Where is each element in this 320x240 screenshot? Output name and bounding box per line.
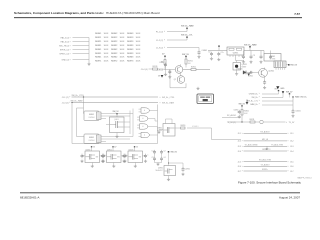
svg-text:»: » [259, 97, 260, 99]
wire bus vertical [88, 38, 90, 63]
capacitor C0952 [217, 52, 224, 57]
svg-text:»: » [288, 141, 289, 143]
capacitor C0941 [248, 71, 253, 78]
svg-text:C0911: C0911 [159, 62, 164, 64]
svg-text:J3-2: J3-2 [290, 141, 294, 143]
wire Q0901 to rail [181, 64, 187, 67]
transistor Q0951 [233, 61, 247, 71]
wire Q0901 collector out [183, 67, 210, 71]
svg-text:100K: 100K [136, 37, 141, 39]
logic gate U0821D [139, 132, 158, 137]
svg-text:R0823: R0823 [127, 41, 134, 43]
resistor R0911 [185, 57, 193, 66]
svg-text:»: » [242, 146, 243, 148]
svg-text:R0832: R0832 [111, 45, 118, 47]
node bus junction 1 [83, 96, 84, 97]
capacitor C0951 [208, 52, 213, 57]
svg-text:R0821: R0821 [95, 41, 102, 43]
svg-text:RX_AUDIO: RX_AUDIO [227, 114, 237, 117]
wire net PA1-5 (2) [73, 37, 90, 39]
node B+ tap dot [218, 45, 220, 50]
svg-text:»: » [242, 141, 243, 143]
svg-text:SPKR-: SPKR- [262, 149, 268, 151]
wire net SPKR- (2) [73, 49, 90, 51]
footer date [279, 196, 300, 200]
resistor R0801 vert [241, 106, 249, 122]
svg-text:»: » [288, 151, 289, 153]
node 5V flag (U0811) [113, 111, 120, 114]
svg-text:SW_B+_CTRL: SW_B+_CTRL [72, 95, 84, 97]
svg-text:R0812: R0812 [111, 37, 118, 39]
svg-text:RX_AUDIO: RX_AUDIO [260, 131, 270, 134]
wire feedback loop [166, 119, 173, 124]
resistor R0851 [175, 125, 186, 129]
svg-text:100K: 100K [136, 61, 141, 63]
svg-text:F1-1 (2): F1-1 (2) [156, 31, 163, 33]
svg-text:J2-4: J2-4 [238, 151, 242, 153]
svg-text:»: » [288, 133, 289, 135]
svg-text:C0851: C0851 [234, 109, 239, 111]
svg-text:SW_B+_CTRL: SW_B+_CTRL [162, 97, 174, 99]
svg-text:J2-6: J2-6 [238, 166, 242, 168]
svg-text:R0861: R0861 [95, 57, 102, 59]
note box (part number callout) [197, 94, 214, 104]
net label SW_B+_RAW mid [160, 101, 175, 104]
node 5V flag (Q0901) [162, 54, 166, 57]
svg-text:R0841: R0841 [95, 49, 102, 51]
wire SPKR+ line [238, 169, 294, 173]
wire K line 3 [262, 100, 293, 102]
svg-text:J3-3: J3-3 [290, 146, 294, 148]
resistor R0811 label [250, 119, 256, 123]
svg-text:SW_B+_CTL: SW_B+_CTL [181, 34, 194, 36]
IC U0931 box [156, 166, 176, 176]
wire net GND (2) [73, 59, 90, 61]
svg-text:0 100K 0: 0 100K 0 [192, 126, 198, 128]
svg-text:U0831: U0831 [157, 127, 162, 129]
svg-text:HUE4017A (700-800 MHz) Main Bo: HUE4017A (700-800 MHz) Main Board [106, 11, 160, 15]
svg-text:»: » [288, 161, 289, 163]
transistor Q0801 small [260, 120, 264, 124]
svg-text:R0871: R0871 [95, 61, 102, 63]
wire TX5V out [264, 122, 295, 124]
resistor table R0801-R0883 values [95, 33, 141, 63]
svg-text:R0801: R0801 [244, 110, 249, 112]
svg-text:J2-7: J2-7 [238, 171, 242, 173]
ground (C0931) [181, 173, 184, 176]
svg-text:SW_B+_RAW: SW_B+_RAW [162, 101, 174, 104]
svg-text:R0921: R0921 [191, 67, 196, 69]
svg-text:100K: 100K [104, 53, 109, 55]
wire U0801B pins [101, 137, 106, 142]
node PA1-6 (2) label [61, 40, 71, 43]
transistor U0831 box [157, 124, 175, 137]
wire RX_AUDIO upper [222, 114, 241, 118]
svg-text:100K: 100K [104, 33, 109, 35]
svg-text:R0813: R0813 [127, 37, 134, 39]
svg-text:R0843: R0843 [127, 49, 134, 51]
wire drop 2 [71, 103, 73, 144]
svg-text:»: » [70, 53, 71, 55]
svg-text:»: » [160, 97, 161, 99]
svg-text:J2-5: J2-5 [238, 161, 242, 163]
svg-text:R0852: R0852 [111, 53, 118, 55]
svg-text:»: » [242, 161, 243, 163]
svg-text:»: » [70, 49, 71, 51]
wire RX_AUD_RTN line [238, 159, 294, 164]
node RAW_B+ label [250, 103, 259, 106]
svg-text:7-57: 7-57 [294, 12, 300, 16]
svg-text:J1-9 (2): J1-9 (2) [156, 47, 163, 49]
svg-text:R0831: R0831 [95, 45, 102, 47]
ground (C0851) [238, 115, 241, 118]
node SW_5V flag [181, 34, 194, 40]
wire K line 2 [262, 97, 283, 99]
svg-text:C0941: C0941 [248, 76, 253, 78]
svg-text:»: » [288, 146, 289, 148]
svg-text:SPKR- (2): SPKR- (2) [60, 49, 69, 51]
footer doc number [20, 196, 40, 200]
svg-text:C0841: C0841 [295, 111, 300, 113]
svg-text:R0931: R0931 [153, 66, 158, 68]
svg-text:100K: 100K [136, 57, 141, 59]
svg-text:J3-5: J3-5 [290, 161, 294, 163]
svg-text:J1-2 (2): J1-2 (2) [156, 40, 163, 42]
capacitor group C0921-C0924 [151, 150, 165, 163]
wire K line 4 [262, 104, 293, 106]
wire bus SW_B+_RAW [62, 100, 158, 105]
svg-text:R0851: R0851 [181, 125, 186, 127]
svg-text:»: » [242, 171, 243, 173]
ground flag (CR0941) [247, 73, 250, 76]
svg-text:R0811: R0811 [95, 37, 102, 39]
svg-text:J3-4: J3-4 [290, 151, 294, 153]
node bus junction 2 [71, 102, 72, 103]
op-amp U0961 regulator [264, 54, 281, 62]
node UNSW_B+ label [249, 93, 260, 95]
svg-text:UNSW_B+: UNSW_B+ [249, 93, 259, 95]
svg-text:C0931: C0931 [185, 169, 190, 171]
svg-text:J1-4 (4): J1-4 (4) [141, 69, 148, 71]
IC U0901 analog switch [80, 146, 106, 167]
wire Q0941 collector up [264, 68, 266, 70]
svg-text:U0931: U0931 [158, 168, 163, 170]
capacitor C0962 [250, 51, 256, 60]
svg-text:Figure 7-100. Secure Interfac: Figure 7-100. Secure Interface Board Sch… [238, 180, 302, 184]
wire Q pair loop [170, 70, 186, 88]
node RAW_SW_B+ dot [292, 96, 307, 99]
transistor U0811 box [110, 114, 125, 133]
wire U0951 pins [230, 55, 244, 61]
svg-text:MAEPF-27845-O: MAEPF-27845-O [297, 176, 312, 179]
capacitor C0963 [260, 51, 263, 60]
wire J0961 pins [276, 68, 285, 70]
svg-text:TX_AUD_SEND: TX_AUD_SEND [244, 143, 258, 146]
ground (C0841) [291, 114, 294, 117]
svg-text:»: » [242, 133, 243, 135]
caption watermark text [297, 176, 312, 179]
svg-text:100K: 100K [120, 45, 125, 47]
ground (C0911) [164, 69, 167, 76]
diode CR0941 [236, 68, 246, 74]
logic gate U0821C [137, 124, 155, 129]
svg-text:R0811: R0811 [250, 119, 255, 121]
node SPKR+ (2) label [59, 53, 70, 55]
node PA1-5 (2) label [61, 36, 71, 39]
svg-text:J1-3 (2): J1-3 (2) [62, 102, 69, 104]
node SW_5V flag K [286, 91, 293, 97]
svg-text:J2-1: J2-1 [238, 133, 242, 135]
svg-text:100K: 100K [120, 41, 125, 43]
svg-text:100K: 100K [104, 61, 109, 63]
op-amp U0801B [84, 134, 101, 144]
svg-text:100K: 100K [120, 57, 125, 59]
header rule [14, 17, 302, 19]
svg-text:MIC_HI (2): MIC_HI (2) [59, 45, 69, 47]
svg-text:SPKR+ (2): SPKR+ (2) [59, 53, 69, 55]
svg-text:August 24, 2007: August 24, 2007 [279, 196, 300, 200]
svg-text:LM2904: LM2904 [89, 140, 95, 142]
wire SPKR- line [238, 149, 294, 153]
capacitor C0964 [269, 51, 272, 60]
footer rule [20, 192, 300, 194]
svg-text:100K: 100K [120, 53, 125, 55]
logic gate U0821B [137, 116, 155, 121]
op-amp U0801A [84, 111, 101, 121]
svg-text:Schematics, Component Location: Schematics, Component Location Diagrams,… [14, 11, 104, 15]
ground flag (reg2) [276, 86, 285, 90]
svg-text:100K: 100K [136, 41, 141, 43]
svg-text:SW_5V: SW_5V [286, 91, 293, 93]
wire Q0941 emitter down [264, 76, 266, 81]
node SW_B+_CTL label [247, 100, 260, 102]
wire bus SW_B+_CTRL [62, 95, 158, 99]
svg-text:TX_AUDIO: TX_AUDIO [261, 163, 271, 166]
svg-text:»: » [70, 41, 71, 43]
svg-text:R0803: R0803 [127, 33, 134, 35]
svg-text:R0842: R0842 [111, 49, 118, 51]
ground (U0931) [167, 176, 170, 181]
wire inner vertical [77, 108, 85, 137]
wire rail to U0961 [263, 51, 265, 54]
node MIC_HI (2) label [59, 45, 70, 47]
page header title text [14, 11, 160, 15]
svg-text:GND: GND [280, 88, 285, 90]
svg-text:R0863: R0863 [127, 57, 134, 59]
svg-text:TX_AUD_RTN: TX_AUD_RTN [271, 143, 283, 146]
svg-text:6816532H01-A: 6816532H01-A [20, 196, 40, 200]
svg-text:U0951: U0951 [233, 53, 239, 55]
node SW_5V flag (Q0911) [182, 54, 189, 57]
svg-text:BSS84: BSS84 [157, 130, 162, 132]
svg-text:R0801: R0801 [95, 33, 102, 35]
svg-text:RAW_SW_B+: RAW_SW_B+ [295, 96, 308, 99]
svg-text:J2-3: J2-3 [238, 146, 242, 148]
svg-text:TX_5V: TX_5V [289, 122, 296, 124]
svg-text:SPKR+: SPKR+ [262, 169, 268, 171]
node SW_B+_RAW flag [181, 24, 194, 31]
connector J0961 pin block [274, 61, 286, 68]
svg-text:LM2904: LM2904 [89, 117, 95, 119]
svg-text:100K: 100K [104, 57, 109, 59]
svg-text:C3: C3 [253, 55, 255, 57]
svg-text:Q0941: Q0941 [268, 71, 274, 73]
node 5V flag K [275, 88, 280, 94]
svg-text:SW_5V: SW_5V [113, 111, 120, 113]
svg-text:»: » [164, 40, 165, 42]
svg-text:SW_B+_RAW: SW_B+_RAW [181, 24, 194, 27]
svg-text:R0802: R0802 [111, 33, 118, 35]
svg-text:J3-1: J3-1 [290, 133, 294, 135]
svg-text:»: » [70, 45, 71, 47]
ground (C0942) [263, 86, 266, 89]
svg-text:SW_B+_RAW: SW_B+_RAW [244, 43, 257, 46]
svg-text:C0861: C0861 [202, 50, 208, 52]
wire net MIC_HI (2) [73, 45, 90, 47]
svg-text:SW_5V: SW_5V [239, 103, 246, 105]
svg-text:100K: 100K [136, 33, 141, 35]
svg-text:C2: C2 [164, 150, 166, 152]
ground (pair) [196, 87, 199, 90]
wire main B+ rail [208, 50, 264, 52]
svg-text:SW_5V: SW_5V [182, 54, 189, 56]
svg-text:CR0941: CR0941 [236, 68, 243, 70]
transistor Q0941 [259, 68, 274, 77]
svg-text:»: » [259, 104, 260, 106]
diode CR0801 [282, 91, 284, 97]
svg-text:R0862: R0862 [111, 57, 118, 59]
capacitor C0961 [242, 51, 245, 60]
svg-text:»: » [70, 37, 71, 39]
svg-text:100K: 100K [136, 45, 141, 47]
wire TX_EN input [156, 69, 175, 71]
wire K line 1 [262, 93, 279, 95]
node SW_5V flag L [239, 103, 246, 106]
logic gate U0821A [139, 108, 158, 113]
svg-text:PA1-6 (2): PA1-6 (2) [61, 40, 70, 43]
wire net SPKR+ (2) [73, 53, 90, 55]
resistor R0901 [161, 56, 166, 69]
ground (C0861) [197, 55, 200, 58]
wire R0851 run [187, 126, 212, 128]
svg-text:GND (2): GND (2) [62, 59, 70, 61]
wire flag to box [168, 152, 169, 166]
wire U0831 left [159, 129, 163, 131]
capacitor C0911 [159, 62, 167, 69]
ground (Q0951) [235, 70, 238, 75]
svg-text:»: » [286, 122, 287, 124]
svg-text:100K: 100K [120, 33, 125, 35]
svg-text:»: » [288, 166, 289, 168]
svg-text:»: » [242, 151, 243, 153]
node junction TX5V [241, 121, 242, 122]
svg-text:R0833: R0833 [127, 45, 134, 47]
wire gate input ladder [106, 109, 133, 140]
ground flag (K column) [246, 100, 249, 105]
node 5V flag Q [168, 151, 178, 154]
transistor Q0911 [174, 76, 185, 84]
ground (cap group) [156, 163, 159, 166]
wire corner to bus [212, 128, 242, 140]
svg-text:U0801: U0801 [89, 114, 94, 116]
node SW_B+ label [252, 97, 260, 99]
node GND (2) label [62, 59, 71, 61]
svg-text:»: » [242, 166, 243, 168]
net label SW_B+_CTRL mid [160, 97, 175, 99]
wire diode to Q0941 [246, 71, 252, 73]
wire U0801A pins [84, 114, 107, 119]
svg-text:PA1-5 (2): PA1-5 (2) [61, 36, 70, 39]
wire logic bottom [72, 143, 158, 145]
wire cap to Q0941 [253, 71, 258, 73]
svg-text:SW_5V: SW_5V [290, 65, 297, 67]
svg-text:C4: C4 [164, 157, 166, 159]
capacitor C0861 [198, 50, 208, 55]
svg-text:»: » [70, 59, 71, 61]
ground (C0963) [259, 60, 262, 63]
svg-text:100K: 100K [120, 61, 125, 63]
svg-text:R0851: R0851 [95, 53, 102, 55]
node flag small [158, 75, 163, 78]
svg-text:»: » [259, 100, 260, 102]
svg-text:»: » [164, 47, 165, 49]
wire UNSW_B+ stub [156, 31, 187, 33]
wire drop 1 [83, 97, 85, 114]
svg-text:RX_AUD_RTN: RX_AUD_RTN [259, 159, 272, 162]
svg-text:U0801: U0801 [89, 137, 94, 139]
node SW_B+_RAW label 2 [244, 43, 257, 50]
capacitor C0931 [182, 167, 190, 172]
page number [294, 12, 300, 16]
svg-text:»: » [259, 93, 260, 95]
svg-text:100K: 100K [120, 37, 125, 39]
wire to C0931 [169, 163, 184, 168]
svg-text:»: » [164, 31, 165, 33]
svg-text:100K: 100K [104, 41, 109, 43]
ground (connector bus) [87, 63, 90, 66]
capacitor C0942 [263, 80, 266, 85]
wire K vertical [292, 97, 294, 110]
svg-text:100K: 100K [104, 37, 109, 39]
ground (C0912) [168, 75, 171, 78]
svg-text:Q0811: Q0811 [114, 119, 119, 121]
node SW_5V out [286, 64, 298, 67]
wire U0811 pins [106, 122, 128, 135]
capacitor C0841 [292, 109, 301, 114]
transistor Q0901 [175, 66, 183, 74]
svg-text:»: » [160, 102, 161, 104]
wire RX_AUDIO line [238, 131, 294, 136]
wire SW_B+_CTL stub [156, 40, 187, 42]
wire TX_AUD line [238, 163, 294, 168]
svg-text:100K: 100K [136, 53, 141, 55]
svg-text:100K: 100K [120, 49, 125, 51]
wire SWB+ long stub [156, 47, 199, 50]
IC U0921 analog switch [123, 146, 149, 167]
node SPKR- (2) label [60, 49, 71, 51]
wire TX_5V row [227, 122, 259, 124]
svg-text:RAW_B+: RAW_B+ [250, 103, 259, 106]
svg-text:R0853: R0853 [127, 53, 134, 55]
svg-text:R0911: R0911 [188, 61, 193, 63]
svg-text:J3-7: J3-7 [290, 171, 294, 173]
wire gate outputs [155, 105, 158, 144]
capacitor C0912 [168, 69, 171, 74]
svg-text:100K: 100K [136, 49, 141, 51]
svg-text:MIC_HI: MIC_HI [262, 139, 269, 141]
ground (U0831) [157, 131, 160, 134]
svg-text:R0822: R0822 [111, 41, 118, 43]
